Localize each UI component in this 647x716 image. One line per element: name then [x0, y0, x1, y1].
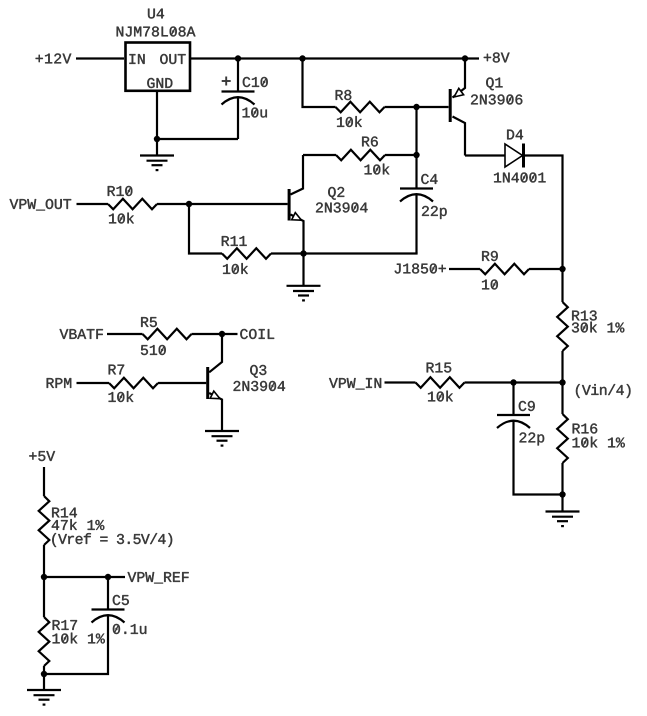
value 10k 1% R16: [573, 437, 625, 448]
value 10u: [243, 107, 267, 117]
wire +12V to U4 IN: [76, 57, 124, 59]
label R15: [427, 363, 452, 373]
value 0.1u: [113, 624, 146, 634]
wire R8 to Q1 base: [385, 106, 449, 108]
wire: [385, 154, 417, 156]
node junction VPW_REF: [41, 574, 47, 580]
label Q2: [328, 187, 344, 200]
value 10k R8: [337, 116, 362, 127]
diode D4: [505, 144, 524, 168]
node junction gnd: [41, 671, 47, 677]
wire: [529, 268, 563, 270]
value 47k 1%: [52, 519, 105, 530]
label D4: [507, 130, 523, 140]
label R9: [482, 251, 498, 261]
value NJM78L08A: [117, 26, 196, 36]
wire R7 to Q3 base: [158, 382, 206, 384]
transistor Q1: [450, 59, 465, 156]
value 10k R6: [365, 164, 390, 175]
label U4: [148, 9, 164, 19]
label R11: [222, 236, 247, 246]
wire: [561, 351, 563, 383]
resistor R13: [557, 302, 568, 351]
value 10k 1% R17: [53, 633, 105, 644]
node VPW_REF label: [128, 572, 189, 583]
capacitor C10: [222, 59, 255, 140]
node junction GND: [154, 136, 160, 142]
regulator U4 box: [126, 43, 191, 91]
resistor R14: [39, 496, 50, 545]
note (Vin/4): [576, 384, 631, 398]
label R5: [141, 317, 157, 327]
value 10k R11: [223, 263, 248, 274]
label R10: [108, 186, 133, 196]
node junction C10: [235, 55, 241, 61]
node junction Q1: [462, 55, 468, 61]
value 10k R15: [428, 391, 453, 402]
label Q3: [250, 365, 266, 378]
wire R15 to node: [465, 381, 563, 383]
resistor R8: [336, 102, 385, 113]
wire Q1 collector to D4: [465, 154, 505, 156]
label C10: [243, 77, 268, 87]
label R17: [53, 620, 77, 630]
value 1N4001: [494, 172, 546, 182]
value 2N3904 Q2: [316, 202, 368, 212]
wire: [415, 107, 417, 155]
label R7: [109, 365, 124, 375]
node RPM label: [47, 378, 72, 388]
resistor R5: [143, 329, 192, 340]
wire R10 to Q2 base: [157, 203, 288, 205]
node junction C5: [105, 574, 111, 580]
node +12V label: [36, 53, 72, 63]
transistor Q2: [289, 155, 303, 254]
value 2N3906: [471, 94, 522, 104]
wire: [561, 269, 563, 302]
wire: [157, 138, 238, 140]
wire R5 to COIL: [192, 333, 238, 335]
node VPW_OUT label: [10, 199, 72, 210]
resistor R17: [39, 577, 50, 674]
note (Vref = 3.5V/4): [52, 533, 172, 547]
ground: [205, 431, 239, 447]
resistor R11: [222, 248, 271, 259]
node junction R11: [186, 201, 192, 207]
value 22p C9: [520, 432, 545, 445]
node junction C9: [510, 379, 516, 385]
wire +8V rail: [191, 57, 480, 59]
wire U4 GND pin: [156, 91, 158, 139]
node junction COIL: [219, 331, 225, 337]
label R6: [362, 136, 378, 146]
ground: [27, 674, 61, 706]
label R16: [573, 423, 598, 433]
wire R11 branch: [189, 204, 222, 254]
node junction R9: [559, 266, 565, 272]
node +5V label: [29, 451, 55, 461]
value 10 R9: [482, 279, 498, 289]
node VBATF label: [60, 329, 103, 339]
ground: [140, 139, 174, 171]
value 30k 1%: [572, 322, 624, 333]
wire VPW_IN to R15: [385, 381, 416, 383]
node J1850+ label: [395, 263, 446, 273]
value 2N3904 Q3: [234, 381, 286, 391]
resistor R9: [480, 264, 529, 275]
node junction R8: [299, 55, 305, 61]
wire R11 to C4 bottom: [271, 252, 418, 254]
capacitor C5: [44, 577, 125, 674]
label R13: [572, 310, 597, 320]
value 22p C4: [422, 206, 447, 219]
capacitor C4: [400, 155, 433, 254]
wire +5V to R14: [43, 467, 45, 496]
label R8: [336, 90, 352, 100]
wire VPW_OUT to R10: [77, 203, 109, 205]
node VPW_IN label: [329, 378, 381, 389]
label C5: [113, 595, 129, 605]
wire: [43, 545, 45, 577]
node COIL label: [240, 329, 274, 339]
value 510: [141, 345, 166, 355]
node junction R6/C4: [413, 152, 419, 158]
resistor R6: [336, 150, 385, 161]
node junction Q2 emitter: [300, 250, 306, 256]
resistor R7: [109, 378, 158, 389]
node +8V label: [484, 52, 510, 62]
ground: [546, 495, 580, 528]
wire: [303, 154, 336, 156]
wire J1850+ to R9: [449, 268, 480, 270]
pin OUT: [160, 54, 185, 64]
label Q1: [486, 77, 502, 90]
resistor R15: [416, 377, 465, 388]
capacitor C9: [497, 383, 563, 495]
wire D4 to main vertical: [524, 156, 563, 270]
wire RPM to R7: [77, 382, 110, 384]
node junction R16 gnd: [559, 491, 565, 497]
transistor Q3: [208, 334, 222, 431]
resistor R10: [108, 199, 157, 210]
plus sign C10: [222, 77, 231, 86]
wire to VPW_REF: [44, 576, 125, 578]
node junction R8/C4: [413, 104, 419, 110]
label C4: [421, 174, 437, 184]
label R14: [52, 508, 77, 518]
value 10k R7: [109, 391, 134, 402]
label C9: [519, 401, 535, 411]
value 10k R10: [109, 213, 134, 224]
ground: [287, 254, 321, 302]
pin IN: [129, 54, 144, 64]
wire VBATF to R5: [107, 333, 143, 335]
pin GND: [147, 78, 172, 88]
resistor R16: [557, 383, 568, 495]
wire R8 branch: [303, 59, 336, 108]
node junction Vin/4: [559, 379, 565, 385]
